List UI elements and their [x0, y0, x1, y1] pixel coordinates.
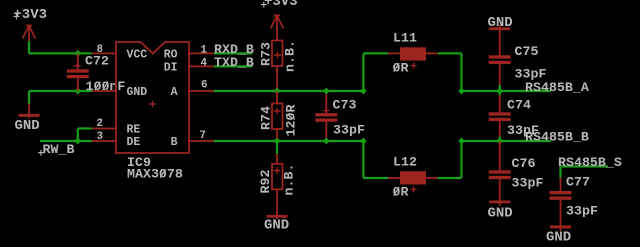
svg-text:DE: DE: [127, 136, 141, 149]
svg-text:33pF: 33pF: [566, 204, 598, 219]
wire L11 right horizontal: [438, 52, 462, 54]
wire RXD_B net stub: [214, 52, 253, 54]
svg-text:33pF: 33pF: [333, 123, 365, 138]
wire L12 right riser: [460, 141, 462, 178]
pin 2 stub RE: [92, 128, 116, 130]
origin cross L12: [411, 186, 417, 192]
svg-text:2: 2: [97, 118, 103, 130]
svg-text:C75: C75: [515, 44, 539, 59]
node RW_B junction: [74, 138, 81, 145]
node GND junction C72: [74, 88, 81, 95]
node B junction L12 output: [458, 138, 465, 145]
svg-text:RS485B_S: RS485B_S: [558, 155, 622, 170]
svg-text:3: 3: [97, 131, 103, 143]
wire TXD_B net stub: [214, 65, 253, 67]
svg-text:33pF: 33pF: [512, 176, 544, 191]
label origin cross +3V3 right: [261, 2, 267, 8]
wire R92 link: [276, 141, 278, 154]
ground GND (C75) symbol: [489, 25, 510, 56]
svg-text:n.B.: n.B.: [282, 164, 297, 196]
svg-text:RO: RO: [164, 49, 178, 62]
wire net A from pin 6: [214, 90, 363, 92]
svg-text:33pF: 33pF: [507, 123, 539, 138]
wire RS485B_S riser: [559, 166, 561, 178]
node B junction C73: [323, 138, 330, 145]
inductor L12: [388, 171, 438, 184]
svg-text:33pF: 33pF: [515, 67, 547, 82]
svg-text:n.B.: n.B.: [283, 40, 298, 72]
svg-text:GND: GND: [15, 118, 40, 134]
svg-text:B: B: [171, 136, 178, 149]
node B junction L12 riser: [360, 138, 367, 145]
node A junction R73/R74: [274, 88, 281, 95]
node A junction L11 riser: [360, 88, 367, 95]
wire GND rail left vertical: [28, 91, 30, 104]
node A junction C74/C75: [496, 88, 503, 95]
svg-text:R92: R92: [258, 170, 273, 194]
wire C75 to net A: [499, 85, 501, 91]
svg-text:120R: 120R: [284, 105, 299, 137]
svg-text:R73: R73: [259, 42, 274, 66]
node B junction R74/R92: [274, 138, 281, 145]
node A junction C73: [323, 88, 330, 95]
pin 4 stub DI: [189, 65, 214, 67]
capacitor C74: [489, 95, 511, 137]
origin cross C73: [323, 108, 329, 114]
capacitor C76: [489, 141, 511, 206]
pin 8 stub VCC: [92, 52, 116, 54]
svg-text:TXD_B: TXD_B: [214, 55, 254, 70]
svg-text:L12: L12: [393, 154, 417, 169]
wire C74 bottom link: [499, 137, 501, 142]
wire RW_B net: [40, 140, 92, 142]
svg-text:0R: 0R: [393, 185, 409, 200]
resistor R73: [272, 16, 283, 90]
svg-text:R74: R74: [259, 106, 274, 130]
value 0R L11: [393, 61, 409, 76]
ground GND (C77) symbol: [550, 226, 571, 229]
svg-text:1: 1: [201, 45, 208, 57]
wire L11 right riser: [460, 53, 462, 91]
node VCC junction C72: [74, 50, 81, 57]
pin 6 stub A: [189, 90, 214, 92]
svg-text:GND: GND: [127, 86, 148, 99]
ground GND (left): [19, 103, 40, 118]
wire +3V3 vertical: [28, 41, 30, 53]
origin cross C72: [74, 62, 81, 69]
svg-text:RE: RE: [127, 124, 141, 137]
svg-text:7: 7: [200, 130, 206, 142]
svg-text:GND: GND: [488, 206, 513, 222]
node A junction L11 output: [458, 88, 465, 95]
capacitor C75: [489, 55, 511, 85]
origin cross IC9: [149, 101, 156, 108]
svg-text:+3V3: +3V3: [264, 0, 298, 10]
svg-text:VCC: VCC: [127, 49, 148, 62]
node B junction C74/C76: [496, 138, 503, 145]
origin cross R92: [274, 167, 281, 174]
value 120R (rotated): [284, 105, 299, 137]
wire L11 left horizontal: [363, 52, 388, 54]
wire RE-DE vertical tie: [77, 129, 79, 142]
origin cross R73: [274, 52, 281, 59]
svg-text:RS485B_A: RS485B_A: [525, 80, 589, 95]
svg-text:GND: GND: [546, 230, 571, 246]
wire L12 right horizontal: [438, 177, 462, 179]
resistor R74: [272, 91, 283, 140]
svg-text:+3V3: +3V3: [13, 7, 47, 23]
wire GND rail to IC GND pin: [29, 90, 92, 92]
wire net RS485B_B: [462, 140, 552, 142]
ground GND (C76) symbol: [489, 201, 510, 204]
svg-text:GND: GND: [264, 218, 289, 234]
wire net RS485B_A: [462, 90, 552, 92]
power +3V3 (right) arrow symbol: [271, 16, 284, 29]
svg-text:4: 4: [201, 57, 208, 69]
origin cross L11: [411, 63, 417, 69]
svg-text:8: 8: [97, 44, 103, 56]
capacitor C72: [67, 53, 89, 91]
svg-text:0R: 0R: [393, 61, 409, 76]
capacitor C77: [550, 178, 572, 231]
value MAX3078: [127, 167, 183, 182]
ground GND (R92): [267, 215, 288, 218]
pin 1 stub RO: [189, 52, 214, 54]
pin 5 stub GND: [92, 90, 116, 92]
wire L11 left riser: [362, 53, 364, 91]
value 0R L12: [393, 185, 409, 200]
svg-text:L11: L11: [393, 31, 417, 46]
capacitor C73: [315, 91, 337, 141]
svg-text:A: A: [171, 86, 178, 99]
inductor L11: [388, 47, 438, 60]
svg-text:MAX3078: MAX3078: [127, 167, 183, 182]
pin 7 stub B: [189, 140, 214, 142]
power +3V3 (left) arrow symbol: [23, 26, 36, 39]
pin 3 stub DE: [92, 140, 116, 142]
svg-text:DI: DI: [164, 62, 178, 75]
wire net RS485B_S: [561, 165, 609, 167]
svg-text:C77: C77: [566, 175, 590, 190]
svg-text:C76: C76: [512, 156, 536, 171]
svg-text:6: 6: [201, 80, 207, 92]
wire RE pin link: [78, 127, 92, 129]
resistor R92: [272, 154, 283, 220]
svg-text:RW_B: RW_B: [43, 142, 75, 157]
wire L12 left horizontal: [363, 177, 388, 179]
label origin cross RW_B: [38, 150, 44, 156]
value 100nF: [86, 79, 126, 94]
svg-text:C74: C74: [507, 97, 531, 112]
wire VCC rail to pin 8: [29, 52, 92, 54]
origin cross R74: [274, 108, 281, 115]
op-amp U1 IC9 MAX3078 body: [116, 42, 189, 153]
wire net B from pin 7: [214, 140, 363, 142]
wire L12 left riser: [362, 141, 364, 178]
wire C74 top link: [499, 91, 501, 96]
label origin cross +3V3 left: [13, 13, 19, 19]
svg-text:C73: C73: [333, 98, 357, 113]
